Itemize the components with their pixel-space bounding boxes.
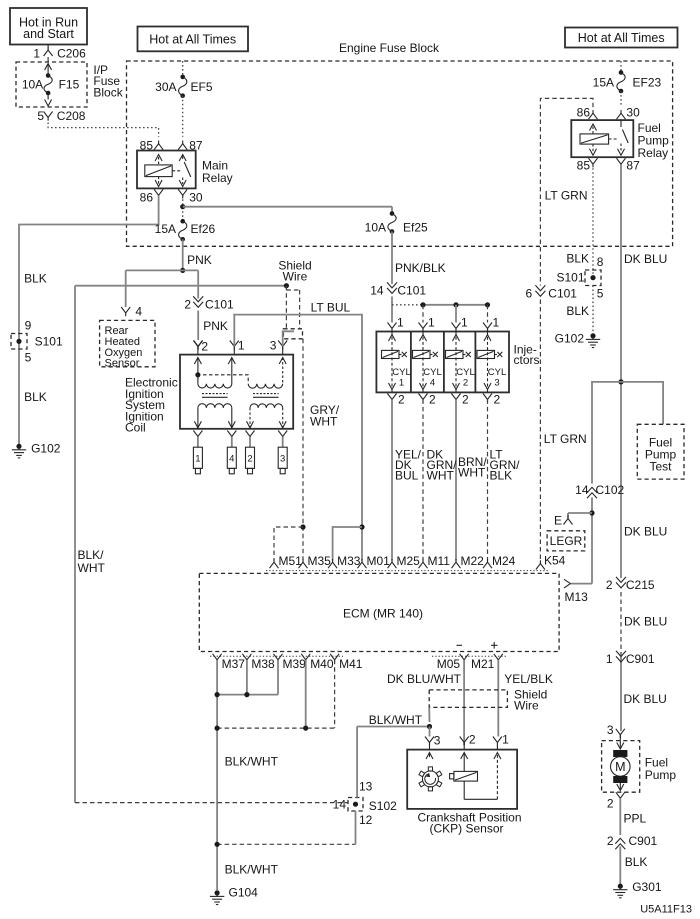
svg-text:C101: C101: [205, 298, 234, 312]
svg-text:PPL: PPL: [624, 812, 647, 826]
svg-text:8: 8: [597, 255, 604, 269]
svg-text:5: 5: [25, 350, 32, 364]
svg-text:BLK/: BLK/: [78, 548, 105, 562]
svg-text:Ef25: Ef25: [403, 221, 428, 235]
svg-text:M38: M38: [251, 657, 275, 671]
svg-text:14: 14: [333, 798, 347, 812]
svg-text:G104: G104: [229, 886, 259, 900]
svg-text:LT GRN: LT GRN: [544, 432, 587, 446]
svg-text:Engine Fuse Block: Engine Fuse Block: [339, 41, 440, 55]
svg-text:1: 1: [399, 377, 404, 388]
svg-text:1: 1: [461, 316, 468, 330]
svg-text:WHT: WHT: [458, 466, 486, 480]
svg-text:PNK: PNK: [187, 253, 212, 267]
svg-text:ctors: ctors: [514, 353, 540, 367]
svg-text:3: 3: [270, 339, 277, 353]
svg-text:Wire: Wire: [283, 269, 308, 283]
svg-text:BLK: BLK: [490, 469, 513, 483]
svg-text:87: 87: [626, 159, 640, 173]
svg-text:F15: F15: [59, 77, 80, 91]
svg-text:2: 2: [398, 393, 405, 407]
svg-text:DK BLU/WHT: DK BLU/WHT: [387, 672, 462, 686]
svg-text:Relay: Relay: [202, 171, 233, 185]
svg-text:2: 2: [429, 393, 436, 407]
svg-text:9: 9: [25, 318, 32, 332]
svg-text:4: 4: [135, 305, 142, 319]
svg-text:Test: Test: [649, 460, 672, 474]
svg-text:LEGR: LEGR: [550, 534, 583, 548]
svg-text:14: 14: [370, 284, 384, 298]
svg-text:BLK: BLK: [566, 304, 589, 318]
svg-text:M41: M41: [339, 657, 363, 671]
svg-text:2: 2: [201, 340, 208, 354]
svg-text:2: 2: [607, 834, 614, 848]
svg-text:30: 30: [626, 105, 640, 119]
svg-text:BLK: BLK: [625, 855, 648, 869]
svg-text:Coil: Coil: [125, 421, 146, 435]
svg-text:C901: C901: [629, 834, 658, 848]
svg-text:M05: M05: [437, 657, 461, 671]
svg-text:S101: S101: [35, 335, 63, 349]
svg-text:C101: C101: [548, 287, 577, 301]
svg-text:Ef26: Ef26: [191, 222, 216, 236]
svg-text:Pump: Pump: [645, 768, 677, 782]
svg-text:C206: C206: [57, 47, 86, 61]
svg-text:M: M: [615, 760, 625, 774]
svg-text:BUL: BUL: [395, 469, 419, 483]
svg-text:86: 86: [140, 191, 154, 205]
svg-text:BLK/WHT: BLK/WHT: [225, 755, 279, 769]
svg-text:PNK/BLK: PNK/BLK: [395, 261, 446, 275]
svg-text:86: 86: [577, 105, 591, 119]
svg-text:M33: M33: [337, 554, 361, 568]
svg-text:G102: G102: [555, 331, 585, 345]
svg-text:5: 5: [597, 287, 604, 301]
svg-text:K54: K54: [544, 553, 566, 567]
svg-text:6: 6: [526, 287, 533, 301]
svg-text:EF23: EF23: [633, 76, 662, 90]
svg-text:BLK/WHT: BLK/WHT: [369, 713, 423, 727]
svg-text:Hot at All Times: Hot at All Times: [149, 32, 236, 46]
svg-text:C102: C102: [596, 483, 625, 497]
svg-text:15A: 15A: [155, 222, 176, 236]
svg-text:U5A11F13: U5A11F13: [640, 904, 692, 916]
svg-text:DK BLU: DK BLU: [624, 525, 667, 539]
svg-text:2: 2: [463, 377, 468, 388]
svg-text:YEL/BLK: YEL/BLK: [504, 672, 553, 686]
svg-text:30A: 30A: [155, 80, 176, 94]
svg-text:M39: M39: [283, 657, 307, 671]
svg-text:ECM (MR 140): ECM (MR 140): [343, 607, 423, 621]
svg-text:12: 12: [359, 813, 373, 827]
svg-text:C215: C215: [626, 578, 655, 592]
svg-text:4: 4: [430, 377, 435, 388]
svg-text:BLK: BLK: [566, 252, 589, 266]
svg-text:CYL: CYL: [392, 367, 410, 378]
svg-text:E: E: [554, 514, 562, 528]
svg-text:WHT: WHT: [78, 561, 106, 575]
svg-text:5: 5: [37, 109, 44, 123]
svg-text:M25: M25: [397, 554, 421, 568]
svg-text:EF5: EF5: [191, 80, 213, 94]
svg-text:and Start: and Start: [23, 27, 74, 41]
svg-text:2: 2: [462, 393, 469, 407]
svg-text:85: 85: [140, 139, 154, 153]
svg-text:M51: M51: [279, 554, 303, 568]
svg-text:DK BLU: DK BLU: [624, 692, 667, 706]
svg-text:M40: M40: [310, 657, 334, 671]
svg-text:87: 87: [189, 139, 203, 153]
svg-text:WHT: WHT: [310, 415, 338, 429]
svg-text:1: 1: [195, 453, 200, 464]
svg-text:BLK: BLK: [24, 272, 47, 286]
svg-text:1: 1: [428, 316, 435, 330]
svg-text:2: 2: [607, 797, 614, 811]
svg-text:BLK/WHT: BLK/WHT: [225, 863, 279, 877]
svg-text:1: 1: [238, 339, 245, 353]
svg-text:10A: 10A: [22, 77, 43, 91]
svg-text:Sensor: Sensor: [105, 357, 140, 369]
svg-text:C101: C101: [397, 284, 426, 298]
svg-text:3: 3: [607, 723, 614, 737]
svg-text:C208: C208: [57, 109, 86, 123]
svg-text:LT BUL: LT BUL: [311, 300, 351, 314]
svg-text:M01: M01: [367, 554, 391, 568]
svg-text:M21: M21: [471, 657, 495, 671]
svg-text:1: 1: [493, 316, 500, 330]
svg-text:3: 3: [434, 733, 441, 747]
svg-text:G301: G301: [632, 880, 662, 894]
svg-text:S102: S102: [369, 799, 397, 813]
svg-text:2: 2: [494, 393, 501, 407]
svg-text:M35: M35: [308, 554, 332, 568]
svg-text:Wire: Wire: [514, 699, 539, 713]
svg-text:30: 30: [189, 191, 203, 205]
svg-text:DK BLU: DK BLU: [624, 615, 667, 629]
svg-text:15A: 15A: [593, 76, 614, 90]
svg-text:1: 1: [397, 316, 404, 330]
svg-text:3: 3: [494, 377, 499, 388]
svg-text:2: 2: [469, 733, 476, 747]
svg-text:PNK: PNK: [203, 319, 228, 333]
svg-text:2: 2: [184, 298, 191, 312]
svg-text:3: 3: [280, 453, 285, 464]
svg-text:M13: M13: [565, 590, 589, 604]
svg-text:M37: M37: [222, 657, 246, 671]
svg-text:M11: M11: [428, 554, 451, 568]
svg-text:S101: S101: [556, 270, 584, 284]
svg-text:WHT: WHT: [427, 469, 455, 483]
svg-text:14: 14: [575, 483, 589, 497]
svg-text:C901: C901: [626, 652, 655, 666]
svg-text:4: 4: [229, 453, 234, 464]
svg-text:G102: G102: [31, 442, 61, 456]
svg-text:CYL: CYL: [488, 367, 506, 378]
svg-text:DK BLU: DK BLU: [624, 252, 667, 266]
svg-text:M24: M24: [492, 554, 516, 568]
svg-text:2: 2: [606, 578, 613, 592]
svg-text:Block: Block: [93, 86, 123, 100]
svg-text:CYL: CYL: [423, 367, 441, 378]
svg-text:85: 85: [577, 159, 591, 173]
svg-text:LT GRN: LT GRN: [545, 188, 588, 202]
svg-text:10A: 10A: [365, 221, 386, 235]
svg-text:(CKP) Sensor: (CKP) Sensor: [429, 822, 503, 836]
svg-text:1: 1: [33, 47, 40, 61]
svg-text:2: 2: [247, 453, 252, 464]
svg-text:BLK: BLK: [24, 390, 47, 404]
svg-text:1: 1: [606, 652, 613, 666]
svg-text:1: 1: [502, 733, 509, 747]
svg-text:Relay: Relay: [638, 146, 669, 160]
svg-text:M22: M22: [461, 554, 485, 568]
svg-text:13: 13: [359, 780, 373, 794]
svg-text:Hot at All Times: Hot at All Times: [578, 31, 665, 45]
svg-text:CYL: CYL: [456, 367, 474, 378]
